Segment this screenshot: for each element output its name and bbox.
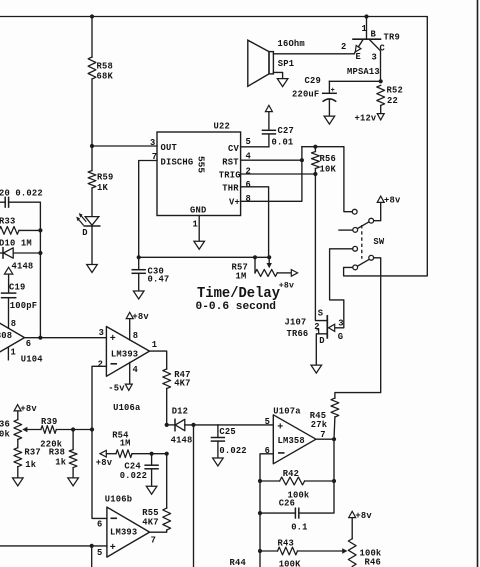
- transistor TR9 emitter arrow: [355, 45, 361, 52]
- wire R47 to D12: [166, 389, 168, 425]
- wire R38 top lead: [72, 430, 74, 450]
- wire out vertical to C26: [299, 439, 334, 513]
- svg-text:0-0.6 second: 0-0.6 second: [196, 301, 277, 313]
- svg-text:+8v: +8v: [96, 458, 113, 468]
- svg-text:1: 1: [152, 340, 157, 350]
- junction R54/R47-D12: [165, 452, 169, 456]
- switch SW pole2 throw: [353, 246, 358, 251]
- svg-text:+8v: +8v: [279, 281, 294, 290]
- svg-text:CV: CV: [228, 144, 239, 154]
- wire C30 bottom lead: [138, 273, 140, 291]
- svg-text:6: 6: [26, 339, 31, 349]
- svg-text:0.47: 0.47: [148, 275, 170, 285]
- svg-text:+8v: +8v: [384, 195, 401, 205]
- junction rail/R33: [38, 228, 42, 232]
- wire DISCHG pin7: [139, 161, 157, 258]
- svg-text:8: 8: [133, 331, 138, 341]
- wire D12 to U107a pin5: [185, 424, 273, 426]
- resistor R42: [280, 477, 305, 485]
- op-amp U22 555 box: [157, 132, 241, 216]
- svg-text:3: 3: [372, 53, 377, 63]
- svg-text:R56: R56: [320, 154, 336, 164]
- svg-text:0.022: 0.022: [219, 446, 246, 456]
- wire SP1 to TR9 emitter: [273, 53, 354, 55]
- svg-text:RST: RST: [222, 158, 239, 168]
- svg-text:+12v: +12v: [355, 114, 377, 124]
- svg-text:5: 5: [265, 417, 270, 427]
- wire C26 left lead: [260, 512, 295, 514]
- svg-text:22: 22: [387, 96, 398, 106]
- switch SW blade 1: [357, 222, 369, 229]
- svg-text:36: 36: [0, 420, 10, 430]
- wire C19 top lead: [8, 274, 10, 293]
- svg-text:4K7: 4K7: [142, 517, 158, 527]
- wire R36 wiper to R39: [26, 429, 41, 431]
- wire R54 left lead: [106, 453, 116, 455]
- potentiometer R46 wiper arrow: [342, 548, 347, 553]
- power +12v arrow: [377, 114, 384, 120]
- op-amp U106a: [106, 327, 149, 377]
- wire D10 to rail: [13, 252, 40, 254]
- wire U106a out to R47: [150, 351, 167, 369]
- wire top +12v rail with right-side return to switch: [0, 17, 427, 276]
- wire C20 to feedback rail: [9, 202, 41, 230]
- transistor J107 gate arrow: [329, 324, 335, 331]
- svg-text:20 0.022: 20 0.022: [0, 189, 43, 199]
- wire SP1 bottom terminal: [273, 72, 282, 78]
- wire RST pin4: [241, 159, 302, 161]
- junction pin6/R42: [258, 479, 262, 483]
- svg-text:10K: 10K: [320, 165, 337, 175]
- svg-text:-5v: -5v: [108, 384, 125, 394]
- ground R37: [13, 478, 24, 486]
- svg-text:8: 8: [246, 194, 251, 204]
- svg-text:1k: 1k: [55, 458, 66, 468]
- power +8v arrow at SW: [377, 196, 384, 202]
- wire J107 drain lead: [316, 334, 327, 365]
- diode D10 cathode bar: [2, 248, 4, 258]
- wire R42 right lead: [305, 480, 334, 482]
- op-amp U104 pin1 stub: [7, 347, 9, 360]
- wire pole1 to +8v: [374, 203, 381, 221]
- svg-text:2: 2: [246, 167, 251, 177]
- svg-text:0.01: 0.01: [272, 138, 294, 148]
- ground U22: [194, 241, 205, 249]
- op-amp U107a minus: [278, 452, 285, 454]
- svg-text:R52: R52: [387, 86, 403, 96]
- wire CV pin5: [241, 146, 269, 148]
- svg-text:THR: THR: [222, 184, 239, 194]
- svg-text:4148: 4148: [12, 262, 34, 272]
- wire R56 top lead: [314, 147, 316, 152]
- ground C30: [133, 291, 144, 299]
- wire +8 rail to R56 and switch: [302, 147, 352, 212]
- svg-text:7: 7: [320, 430, 325, 440]
- svg-text:TR9: TR9: [384, 33, 400, 43]
- transistor TR9 emitter line: [354, 40, 363, 54]
- junction R57 left: [253, 255, 257, 259]
- wire pole1 throw stub: [339, 229, 353, 231]
- wire feedback rail: [39, 230, 41, 337]
- capacitor C19: [1, 293, 17, 298]
- svg-text:+8v: +8v: [132, 312, 149, 322]
- svg-text:308: 308: [0, 331, 12, 341]
- svg-text:R59: R59: [97, 173, 113, 183]
- wire R52 to +12v: [380, 106, 382, 114]
- power +8v arrow at R57: [291, 270, 297, 277]
- svg-text:+: +: [277, 423, 283, 434]
- junction pin6/C26: [258, 511, 262, 515]
- svg-text:C29: C29: [305, 76, 321, 86]
- wire R59 to LED: [91, 188, 93, 216]
- svg-text:1: 1: [362, 24, 367, 34]
- ground J107: [311, 365, 322, 373]
- wire C27 bottom lead: [268, 135, 270, 147]
- svg-text:2: 2: [98, 360, 103, 370]
- wire R55 top lead: [166, 454, 168, 508]
- junction D12/vertical: [191, 423, 195, 427]
- junction R57 wiper: [267, 255, 271, 259]
- wire right bus line: [477, 0, 479, 567]
- power -5v arrow U106a: [125, 384, 132, 390]
- svg-text:LM393: LM393: [110, 527, 137, 537]
- ground SP1: [277, 79, 288, 87]
- wire THR pin6: [241, 187, 269, 257]
- resistor R55: [163, 508, 171, 530]
- svg-text:3: 3: [99, 328, 104, 338]
- svg-text:C: C: [380, 44, 386, 54]
- op-amp U106a minus: [111, 363, 118, 365]
- svg-text:100pF: 100pF: [10, 301, 37, 311]
- diode D12 cathode bar: [174, 419, 176, 430]
- wire C27 top lead: [268, 112, 270, 131]
- junction pin5/vertical: [90, 544, 94, 548]
- junction R42 right: [332, 479, 336, 483]
- wire LED cathode: [91, 226, 93, 264]
- wire TRIG pin2: [241, 173, 316, 175]
- wire time-delay node: [139, 256, 270, 258]
- svg-text:D: D: [319, 336, 324, 346]
- wire R58 to OUT node: [91, 79, 93, 171]
- resistor R59: [88, 171, 96, 189]
- svg-text:2: 2: [341, 42, 346, 52]
- wire U107a pin6: [260, 454, 273, 567]
- wire C20 left lead: [0, 201, 5, 203]
- svg-text:1M: 1M: [120, 439, 131, 449]
- junction collector/R52/C29: [379, 79, 383, 83]
- wire R37 bottom lead: [17, 467, 19, 478]
- svg-text:LM393: LM393: [111, 350, 138, 360]
- resistor R54: [116, 450, 132, 458]
- wire R43 left lead: [260, 550, 278, 552]
- potentiometer R57: [255, 269, 277, 276]
- svg-text:7: 7: [151, 535, 156, 545]
- power +8v arrow R46: [349, 511, 356, 517]
- svg-text:Time/Delay: Time/Delay: [197, 285, 280, 302]
- svg-text:0k: 0k: [0, 430, 10, 440]
- potentiometer R57 wiper arrow: [267, 263, 272, 268]
- wire U106a pin8 lead: [129, 319, 131, 340]
- svg-text:220uF: 220uF: [292, 90, 319, 100]
- ground C24: [146, 486, 157, 494]
- svg-text:+: +: [331, 87, 335, 95]
- wire R57 right lead: [277, 272, 291, 274]
- svg-text:SP1: SP1: [278, 59, 294, 69]
- svg-text:TR66: TR66: [287, 329, 309, 339]
- svg-text:+8v: +8v: [355, 511, 372, 521]
- svg-text:0.022: 0.022: [120, 471, 147, 481]
- wire C29 top lead: [328, 81, 330, 93]
- wire TR9 base lead: [366, 17, 368, 40]
- wire U106b out to R55: [150, 530, 167, 532]
- transistor TR9 collector line: [370, 40, 381, 82]
- svg-text:J107: J107: [285, 318, 307, 328]
- wire R57 wiper lead: [268, 257, 270, 263]
- svg-text:+: +: [110, 334, 116, 345]
- resistor R56: [312, 152, 320, 169]
- svg-text:R33: R33: [0, 217, 15, 227]
- wire R58 top lead: [91, 17, 93, 58]
- svg-text:4K7: 4K7: [174, 378, 190, 388]
- capacitor C20: [5, 197, 8, 208]
- wire R45 bottom lead: [333, 417, 336, 439]
- svg-text:E: E: [356, 52, 361, 62]
- svg-text:U106b: U106b: [105, 495, 132, 505]
- switch SW pole1 common: [369, 218, 374, 223]
- svg-text:D12: D12: [172, 407, 188, 417]
- op-amp U106b: [107, 507, 150, 557]
- power +8v arrow R54: [100, 450, 106, 457]
- resistor R39: [41, 426, 56, 434]
- capacitor C24: [144, 465, 158, 469]
- svg-text:100K: 100K: [279, 560, 301, 567]
- svg-text:V+: V+: [229, 198, 240, 208]
- capacitor C25: [211, 438, 225, 442]
- svg-text:+: +: [110, 543, 116, 554]
- wire J107 source lead: [315, 174, 327, 321]
- op-amp U107a: [273, 415, 316, 464]
- svg-text:R58: R58: [97, 62, 113, 72]
- svg-text:U106a: U106a: [113, 403, 141, 413]
- svg-text:3: 3: [338, 318, 343, 328]
- svg-text:555: 555: [196, 156, 207, 173]
- switch SW contact top-left: [352, 209, 357, 214]
- junction DISCHG/C30: [137, 255, 141, 259]
- resistor R38: [69, 450, 77, 468]
- wire C25 top lead: [217, 425, 219, 437]
- svg-text:DISCHG: DISCHG: [161, 158, 194, 168]
- svg-text:16Ohm: 16Ohm: [278, 39, 305, 49]
- svg-text:D: D: [82, 228, 87, 238]
- junction rail/TR9 base: [364, 14, 368, 18]
- svg-text:R46: R46: [365, 558, 381, 567]
- wire pole2 common to R45: [335, 258, 381, 398]
- svg-text:68K: 68K: [97, 71, 114, 81]
- capacitor C26: [295, 508, 298, 519]
- transistor TR9 base bar: [353, 38, 381, 40]
- svg-text:TRIG: TRIG: [219, 171, 241, 181]
- svg-text:LM358: LM358: [278, 436, 305, 446]
- svg-text:R39: R39: [41, 417, 57, 427]
- junction R39/pin2 rail: [90, 427, 94, 431]
- wire R39 to pin2 rail: [56, 429, 92, 431]
- speaker SP1 body: [248, 40, 274, 86]
- junction rail/R58: [90, 14, 94, 18]
- svg-text:1: 1: [11, 348, 16, 358]
- svg-text:R44: R44: [230, 558, 247, 567]
- svg-text:R38: R38: [49, 448, 65, 458]
- wire R33 to rail: [19, 229, 40, 231]
- wire U104 out to U106a pin3: [25, 337, 107, 339]
- junction R56 top: [313, 145, 317, 149]
- wire U106b pin5: [0, 545, 107, 547]
- switch SW pole2 common: [369, 255, 374, 260]
- svg-text:R43: R43: [278, 539, 294, 549]
- wire C29 bottom lead: [328, 99, 330, 116]
- wire R56 to JFET source: [314, 169, 316, 175]
- svg-text:C25: C25: [219, 427, 235, 437]
- svg-text:SW: SW: [373, 237, 384, 247]
- wire D12 anode-side: [167, 424, 175, 426]
- wire C30 top lead: [138, 257, 140, 269]
- ground C25: [213, 458, 224, 466]
- wire R36 to R37: [17, 440, 19, 448]
- wire U106a pin4 lead: [129, 363, 131, 385]
- svg-text:4148: 4148: [171, 436, 193, 446]
- wire R42 left lead: [260, 480, 280, 482]
- junction U104 out/feedback rail: [38, 336, 42, 340]
- power +8v arrow U106a: [126, 312, 133, 318]
- wire C24 bottom lead: [151, 469, 153, 486]
- svg-text:1: 1: [193, 220, 198, 230]
- wire pin5 vertical to bottom: [91, 546, 93, 567]
- capacitor C27: [262, 130, 276, 134]
- connector arrow above C27: [265, 105, 272, 111]
- wire D10 left lead: [0, 252, 3, 254]
- LED D: [76, 213, 100, 226]
- junction R47/D12: [165, 423, 169, 427]
- junction out/R45: [332, 437, 336, 441]
- potentiometer R36: [14, 420, 22, 440]
- svg-text:GND: GND: [190, 206, 206, 216]
- wire C29 to collector: [329, 80, 380, 82]
- svg-text:U104: U104: [21, 355, 43, 365]
- potentiometer R46: [348, 539, 356, 567]
- junction node OUT/R59: [90, 144, 94, 148]
- connector arrow above C19: [4, 267, 12, 274]
- svg-text:8: 8: [11, 319, 16, 329]
- svg-text:4: 4: [133, 365, 139, 375]
- wire pole2 throw to JFET gate: [330, 249, 353, 328]
- wire V+ pin8 up to +8 rail: [241, 147, 302, 202]
- svg-text:MPSA13: MPSA13: [347, 67, 380, 77]
- wire R46 top lead: [351, 518, 353, 539]
- resistor R52: [377, 85, 385, 105]
- wire R38 bottom lead: [72, 468, 74, 478]
- svg-text:1k: 1k: [25, 460, 36, 470]
- junction pin6/R43: [258, 549, 262, 553]
- op-amp U104: [0, 313, 25, 363]
- wire R43 to R46 wiper: [298, 550, 343, 552]
- switch SW blade 2: [357, 260, 369, 267]
- resistor R33: [0, 227, 19, 235]
- svg-text:R37: R37: [24, 448, 40, 458]
- transistor J107 channel bar: [326, 316, 328, 338]
- svg-text:S: S: [318, 309, 323, 319]
- svg-text:OUT: OUT: [161, 143, 178, 153]
- resistor R47: [163, 369, 171, 389]
- diode D10 triangle: [3, 248, 13, 258]
- svg-text:6: 6: [97, 520, 102, 530]
- junction rail/D10: [38, 251, 42, 255]
- svg-text:B: B: [371, 30, 377, 40]
- potentiometer R36 wiper arrow: [22, 427, 27, 432]
- svg-text:R42: R42: [283, 469, 299, 479]
- resistor R58: [88, 57, 96, 79]
- capacitor C29 (polarized): [322, 87, 337, 102]
- svg-text:C26: C26: [279, 499, 295, 509]
- junction R39/R38: [71, 427, 75, 431]
- svg-text:G: G: [338, 332, 343, 342]
- wire U106a pin2 to U106b pin6: [92, 366, 107, 518]
- switch SW pole1 throw: [353, 228, 358, 233]
- ground R38: [68, 478, 79, 486]
- ground C29: [324, 116, 335, 124]
- junction RST/V+ rail: [300, 158, 304, 162]
- svg-text:5: 5: [246, 137, 251, 147]
- wire C19 to U104 pin8: [8, 298, 10, 329]
- power +8v arrow R36: [14, 405, 21, 411]
- switch SW dashed link: [361, 225, 363, 259]
- op-amp U106b minus: [111, 517, 118, 519]
- svg-text:0.1: 0.1: [291, 523, 307, 533]
- diode D12 triangle: [175, 419, 185, 430]
- ground LED: [87, 265, 98, 273]
- wire C24 top lead: [151, 454, 153, 465]
- wire R36 top lead: [17, 411, 19, 420]
- svg-text:U107a: U107a: [273, 406, 301, 416]
- svg-text:5: 5: [97, 548, 102, 558]
- junction R56 bottom / TRIG: [313, 172, 317, 176]
- wire R57 left lead: [254, 257, 256, 273]
- wire U107a out: [316, 438, 334, 440]
- svg-text:D10 1M: D10 1M: [0, 239, 32, 249]
- switch SW contact bottom-left: [353, 265, 358, 270]
- svg-text:1K: 1K: [97, 183, 108, 193]
- svg-text:C19: C19: [9, 282, 25, 292]
- wire GND pin1 lead: [198, 216, 200, 242]
- svg-text:6: 6: [246, 180, 251, 190]
- wire R54 right lead: [132, 453, 167, 455]
- wire vertical to bottom edge: [193, 425, 195, 567]
- resistor R45: [331, 398, 339, 417]
- wire C25 bottom lead: [217, 441, 219, 458]
- junction R54/C24: [150, 452, 154, 456]
- svg-text:U22: U22: [214, 122, 230, 132]
- resistor R37: [14, 448, 22, 467]
- svg-text:C27: C27: [278, 126, 294, 136]
- wire OUT pin3: [92, 145, 157, 147]
- capacitor C30: [132, 270, 146, 274]
- resistor R43: [278, 547, 298, 555]
- svg-text:+8v: +8v: [20, 404, 37, 414]
- svg-text:1M: 1M: [236, 272, 247, 282]
- svg-text:27k: 27k: [311, 420, 328, 430]
